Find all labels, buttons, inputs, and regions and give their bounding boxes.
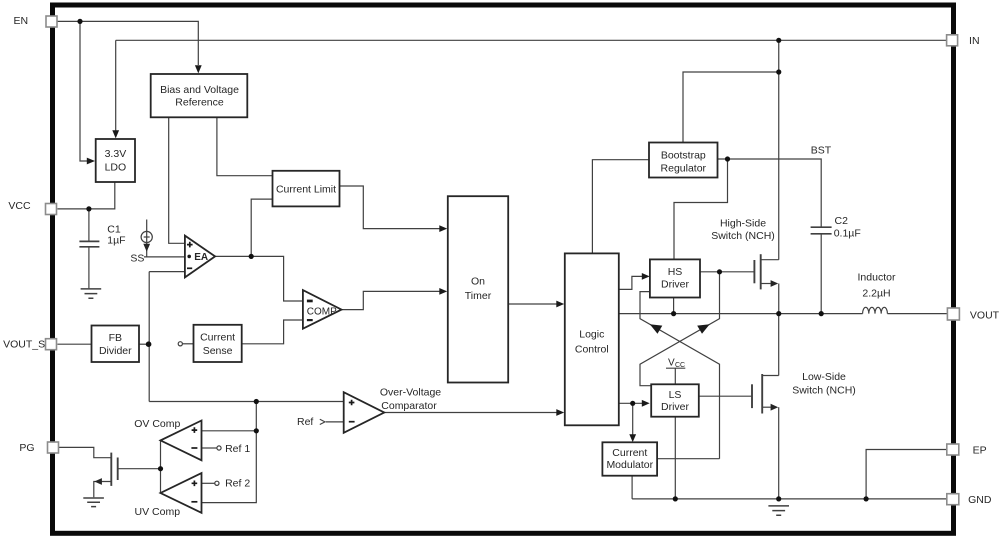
- svg-text:COMP: COMP: [307, 306, 337, 317]
- svg-text:Current: Current: [612, 447, 647, 459]
- svg-text:HS: HS: [668, 266, 683, 278]
- svg-text:FB: FB: [109, 332, 122, 344]
- svg-text:Inductor: Inductor: [858, 272, 896, 284]
- svg-text:GND: GND: [968, 494, 992, 506]
- svg-text:Modulator: Modulator: [606, 459, 653, 471]
- svg-text:3.3V: 3.3V: [105, 148, 127, 160]
- svg-text:LDO: LDO: [105, 161, 127, 173]
- svg-text:Ref 2: Ref 2: [225, 477, 250, 489]
- svg-text:0.1µF: 0.1µF: [834, 228, 861, 240]
- svg-text:Bias and Voltage: Bias and Voltage: [160, 84, 239, 96]
- svg-text:Switch (NCH): Switch (NCH): [792, 385, 856, 397]
- svg-text:VCC: VCC: [8, 200, 31, 212]
- svg-text:Regulator: Regulator: [661, 162, 707, 174]
- svg-text:Sense: Sense: [203, 345, 233, 357]
- svg-text:Control: Control: [575, 343, 609, 355]
- svg-text:LS: LS: [669, 389, 682, 401]
- svg-text:Driver: Driver: [661, 279, 690, 291]
- svg-text:1µF: 1µF: [107, 235, 125, 247]
- svg-text:V: V: [668, 358, 675, 369]
- svg-text:IN: IN: [969, 35, 980, 47]
- svg-text:Low-Side: Low-Side: [802, 371, 846, 383]
- svg-text:Logic: Logic: [579, 328, 604, 340]
- svg-text:C1: C1: [107, 223, 121, 235]
- svg-text:OV Comp: OV Comp: [134, 418, 180, 430]
- svg-text:UV Comp: UV Comp: [135, 506, 181, 518]
- svg-text:PG: PG: [19, 442, 34, 454]
- svg-text:Ref 1: Ref 1: [225, 443, 250, 455]
- svg-text:VOUT_S: VOUT_S: [3, 338, 45, 350]
- svg-text:Ref: Ref: [297, 416, 313, 428]
- svg-text:High-Side: High-Side: [720, 218, 766, 230]
- svg-text:EP: EP: [973, 444, 987, 456]
- svg-text:Current Limit: Current Limit: [276, 183, 336, 195]
- svg-text:VOUT: VOUT: [970, 309, 1000, 321]
- svg-text:BST: BST: [811, 145, 832, 157]
- svg-text:Reference: Reference: [175, 96, 224, 108]
- svg-text:2.2µH: 2.2µH: [862, 287, 890, 299]
- svg-text:Timer: Timer: [465, 290, 492, 302]
- svg-text:On: On: [471, 276, 485, 288]
- svg-text:Over-Voltage: Over-Voltage: [380, 387, 441, 399]
- svg-text:Bootstrap: Bootstrap: [661, 149, 706, 161]
- svg-text:EN: EN: [14, 15, 29, 27]
- svg-text:Switch (NCH): Switch (NCH): [711, 230, 775, 242]
- svg-text:C2: C2: [835, 215, 849, 227]
- svg-text:EA: EA: [194, 252, 208, 263]
- svg-text:CC: CC: [675, 362, 685, 369]
- svg-text:Comparator: Comparator: [381, 400, 437, 412]
- svg-text:Divider: Divider: [99, 345, 132, 357]
- svg-text:Driver: Driver: [661, 401, 690, 413]
- svg-text:SS: SS: [130, 252, 144, 264]
- svg-text:Current: Current: [200, 331, 235, 343]
